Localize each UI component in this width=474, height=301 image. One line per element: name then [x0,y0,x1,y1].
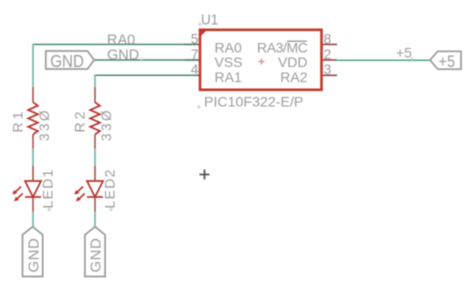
value 330 of R1 [37,108,52,141]
pin 2 stub [322,59,338,61]
svg-text:8: 8 [324,30,332,46]
label U1 [201,12,218,29]
svg-text:PIC10F322-E/P: PIC10F322-E/P [204,95,303,111]
LED LED1 [12,166,41,212]
pin number 3 [324,61,332,77]
IC pin name RA0 [215,39,242,55]
origin cross LED1 label [47,208,51,212]
supply symbol GND left [46,51,94,72]
resistor R2 [90,87,100,149]
svg-text:VSS: VSS [215,54,243,70]
net label RA0 [107,32,135,48]
wire net RA0 vertical [32,44,34,88]
svg-text:R1: R1 [10,109,26,133]
wire net +5 [336,59,430,61]
label R2 [72,109,88,133]
origin cross LED2 label [109,208,113,212]
label LED2 [102,168,118,208]
pin number 5 [191,30,199,46]
pin 8 stub [322,43,338,45]
supply symbol +5 [430,51,461,71]
svg-text:RA0: RA0 [107,32,135,48]
wire net GND to VSS [94,59,198,61]
origin cross GND label [140,57,144,61]
wire net RA1 horizontal [95,74,198,76]
wire net RA1 vertical [94,75,96,88]
label PIC10F322-E/P [204,95,303,111]
net label GND [107,47,139,63]
svg-text:VDD: VDD [278,54,308,70]
pin 7 stub [185,59,200,61]
pin 4 stub [185,74,200,76]
pin 3 stub [322,74,338,76]
IC pin name RA1 [215,69,242,85]
label R1 [10,109,26,133]
svg-text:33Ø: 33Ø [37,108,52,141]
svg-text:U1: U1 [201,12,218,29]
supply symbol GND bottom 1 [23,227,43,277]
pin number 8 [324,30,332,46]
IC pin name RA3/MC with overline [257,39,308,55]
wire R2 to LED2 [94,149,96,166]
svg-text:R2: R2 [72,109,88,133]
svg-text:+5: +5 [396,45,412,61]
value 330 of R2 [99,108,114,141]
IC pin name VSS [215,54,243,70]
wire net RA0 horizontal [33,43,198,45]
IC origin cross [259,59,265,65]
svg-text:GND: GND [25,238,42,273]
cursor cross [200,170,210,180]
resistor R1 [28,87,38,149]
svg-text:GND: GND [88,238,105,273]
pin number 7 [191,46,199,62]
svg-text:+5: +5 [439,53,456,71]
svg-text:33Ø: 33Ø [99,108,114,141]
svg-text:LED1: LED1 [40,168,56,208]
pin number 4 [191,61,199,77]
svg-text:RA1: RA1 [215,69,242,85]
svg-text:4: 4 [191,61,199,77]
svg-text:RA2: RA2 [280,69,307,85]
LED LED2 [74,166,103,212]
wire R1 to LED1 [32,149,34,166]
svg-text:7: 7 [191,46,199,62]
svg-text:GND: GND [50,51,84,72]
origin cross PIC [197,105,201,109]
origin cross +5 label [410,57,414,61]
label LED1 [40,168,56,208]
op IC U1 pin 5 stub [185,43,200,45]
origin cross U1 [198,22,202,26]
IC U1 body [200,30,322,90]
supply symbol GND bottom 2 [85,227,105,277]
pin number 2 [324,46,332,62]
svg-text:2: 2 [324,46,332,62]
net label +5 [396,45,412,61]
IC pin name RA2 [280,69,307,85]
svg-text:GND: GND [107,47,139,63]
svg-text:3: 3 [324,61,332,77]
wire LED1 to GND [32,212,34,227]
svg-text:LED2: LED2 [102,168,118,208]
svg-text:5: 5 [191,30,199,46]
wire LED2 to GND [94,212,96,227]
IC pin name VDD [278,54,308,70]
